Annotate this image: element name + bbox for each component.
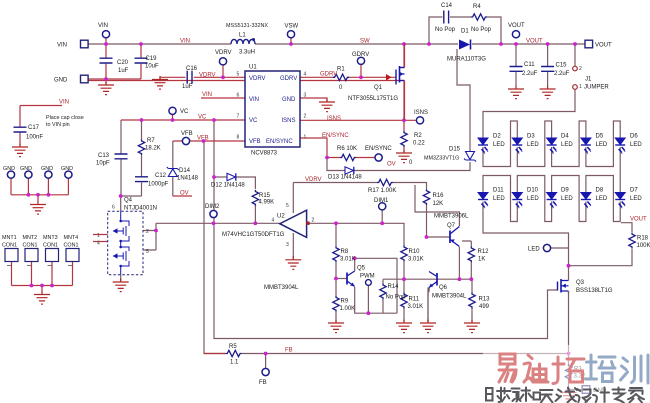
resistor R17 xyxy=(368,179,396,194)
node U2 in at R8 xyxy=(334,221,338,225)
wire D6 to D7 xyxy=(619,147,621,193)
capacitor C12 xyxy=(135,173,169,188)
node VC at testpoint xyxy=(171,118,175,122)
node comp network bottom xyxy=(119,194,123,198)
testpoint GND4 xyxy=(61,166,73,178)
capacitor C11 xyxy=(510,62,538,77)
svg-text:1: 1 xyxy=(97,233,100,239)
svg-text:CON1: CON1 xyxy=(64,243,79,249)
svg-text:C16: C16 xyxy=(186,66,198,72)
svg-text:R9: R9 xyxy=(341,299,349,305)
node GND tp bus a xyxy=(27,193,31,197)
diode D13 1N4148 xyxy=(328,167,362,181)
resistor R5 xyxy=(226,344,242,366)
svg-text:4: 4 xyxy=(97,241,100,247)
resistor R2 xyxy=(401,131,426,147)
wire D14 column xyxy=(172,141,174,196)
LED D4 xyxy=(547,134,574,154)
svg-text:1: 1 xyxy=(304,135,307,141)
svg-text:ISNS: ISNS xyxy=(282,118,296,124)
svg-text:GND: GND xyxy=(20,166,32,172)
ground U1 pin3 xyxy=(319,99,335,112)
svg-text:3: 3 xyxy=(304,93,307,99)
wire GND testpoint bus xyxy=(11,178,68,201)
svg-text:SW: SW xyxy=(360,39,370,45)
svg-text:VIN: VIN xyxy=(202,92,212,98)
svg-text:D12 1N4148: D12 1N4148 xyxy=(211,183,245,189)
node GND tp bus gnd xyxy=(36,193,40,197)
port GND bottom-right xyxy=(582,386,607,394)
wire R14 xyxy=(382,279,384,313)
wire top rail VIN/SW xyxy=(88,43,585,45)
svg-text:VC: VC xyxy=(249,118,258,124)
svg-text:Q6: Q6 xyxy=(439,285,448,291)
wire R3 to GND port xyxy=(569,389,583,391)
mount hole MNT4 CON1 xyxy=(64,235,80,266)
svg-text:L1: L1 xyxy=(239,33,246,39)
testpoint LED xyxy=(528,244,551,252)
svg-text:Place cap close: Place cap close xyxy=(46,115,84,121)
svg-text:DIM1: DIM1 xyxy=(374,198,389,204)
svg-text:1uF: 1uF xyxy=(118,68,129,74)
inductor L1 xyxy=(231,38,255,44)
node VOUT at C15 xyxy=(546,42,550,46)
svg-text:C14: C14 xyxy=(441,3,453,9)
wire MNT bus xyxy=(12,262,73,292)
diode D1 MURA110T3G xyxy=(447,29,486,63)
wire U2 in row xyxy=(308,223,404,245)
svg-text:VDRV: VDRV xyxy=(249,76,266,82)
ground below R9 xyxy=(328,320,344,333)
node VC at R7 xyxy=(140,118,144,122)
ground GND testpoints xyxy=(30,201,46,214)
svg-text:R13: R13 xyxy=(479,297,491,303)
resistor R11 xyxy=(401,293,423,311)
svg-text:2: 2 xyxy=(304,114,307,120)
WIRES-MAIN xyxy=(88,17,632,392)
svg-text:NTJD4001N: NTJD4001N xyxy=(124,206,157,212)
node VOUT at C11 xyxy=(514,42,518,46)
svg-text:LED: LED xyxy=(596,196,608,202)
wire OV stub D14 xyxy=(173,195,192,197)
svg-text:LED: LED xyxy=(493,142,505,148)
wire R11 xyxy=(403,279,405,322)
transistor Q5 MMBT3904L xyxy=(264,266,366,292)
transistor Q6 MMBT3904L xyxy=(428,272,467,323)
svg-text:VC: VC xyxy=(198,114,207,120)
testpoint FB xyxy=(259,368,269,386)
svg-text:6: 6 xyxy=(237,93,240,99)
svg-text:GDRV: GDRV xyxy=(320,72,337,78)
svg-text:100nF: 100nF xyxy=(26,135,43,141)
LED D5 xyxy=(581,134,608,154)
svg-text:M74VHC1GT50DFT1G: M74VHC1GT50DFT1G xyxy=(222,232,285,238)
resistor R3 xyxy=(565,364,586,380)
capacitor C14 xyxy=(435,3,456,33)
node SW at VSW xyxy=(289,42,293,46)
ground MNT xyxy=(34,291,50,304)
wire R18 branch xyxy=(569,223,633,266)
LED D9 xyxy=(547,188,574,209)
resistor R16 xyxy=(423,189,444,207)
testpoint VC xyxy=(169,107,189,115)
svg-text:0.22: 0.22 xyxy=(413,141,425,147)
svg-text:GND: GND xyxy=(3,166,15,172)
wire Q5 collector xyxy=(355,258,397,313)
svg-text:VC: VC xyxy=(180,109,189,115)
svg-text:LED: LED xyxy=(561,196,573,202)
wire LED string return to Q3 xyxy=(483,202,569,278)
svg-text:MNT4: MNT4 xyxy=(64,235,79,241)
wire ISNS row xyxy=(300,120,416,152)
wire FB row xyxy=(204,141,569,354)
transistor Q3 BSS138LT1G xyxy=(558,277,613,294)
wire J1 to LED bus xyxy=(483,44,575,138)
node Q4 drains xyxy=(154,229,158,233)
svg-text:7: 7 xyxy=(237,114,240,120)
svg-text:Q7: Q7 xyxy=(447,223,456,229)
node Q6 base at R10/R11 xyxy=(402,277,406,281)
svg-text:3: 3 xyxy=(286,242,289,248)
svg-text:C13: C13 xyxy=(98,153,110,159)
port VOUT xyxy=(585,40,612,48)
wire Q7 collector xyxy=(458,247,460,279)
svg-text:Q5: Q5 xyxy=(357,266,366,272)
node GND tp bus b xyxy=(47,193,51,197)
testpoint ENSYNC xyxy=(365,146,392,161)
svg-text:MMBT3906L: MMBT3906L xyxy=(434,214,469,220)
node GDRV at testpoint xyxy=(359,75,363,79)
transistor Q4 NTJD4001N dual mosfet xyxy=(97,198,157,275)
node SW at C14 branch xyxy=(427,42,431,46)
svg-text:LED: LED xyxy=(528,247,540,253)
capacitor C15 xyxy=(541,63,570,78)
svg-text:499: 499 xyxy=(479,304,490,310)
wire LED serpentine bottom row xyxy=(586,176,620,222)
svg-text:R18: R18 xyxy=(637,236,649,242)
mount hole MNT3 CON1 xyxy=(43,235,59,266)
wire VC row xyxy=(121,115,245,121)
wire U2 out row xyxy=(143,223,280,250)
svg-text:VDRV: VDRV xyxy=(199,72,216,78)
svg-text:C19: C19 xyxy=(146,56,158,62)
diode D12 1N4148 xyxy=(211,173,245,188)
node ISNS at R2 xyxy=(402,118,406,122)
testpoint PWM xyxy=(360,274,375,286)
ground below R2 xyxy=(396,150,413,167)
svg-text:D13 1N4148: D13 1N4148 xyxy=(328,175,362,181)
svg-text:MNT3: MNT3 xyxy=(43,235,58,241)
svg-text:CON1: CON1 xyxy=(23,243,38,249)
resistor R1 xyxy=(333,67,349,92)
ground below C17 xyxy=(12,144,28,157)
svg-text:D3: D3 xyxy=(527,134,535,140)
svg-text:D6: D6 xyxy=(630,134,638,140)
wire PWM stub xyxy=(367,286,369,314)
svg-text:LED: LED xyxy=(596,142,608,148)
wire R8 R9 column xyxy=(335,223,337,322)
wire VIN stub pin6 xyxy=(201,97,245,99)
svg-text:CON1: CON1 xyxy=(43,243,58,249)
svg-text:R2: R2 xyxy=(414,133,422,139)
svg-text:VIN: VIN xyxy=(180,39,190,45)
svg-text:VOUT: VOUT xyxy=(508,23,525,29)
resistor R10 xyxy=(401,245,424,262)
node FB at R3 top xyxy=(567,352,571,356)
mount hole MNT1 CON1 xyxy=(2,235,18,266)
svg-text:VIN: VIN xyxy=(98,23,108,29)
svg-text:D9: D9 xyxy=(561,188,569,194)
svg-text:VIN: VIN xyxy=(249,97,259,103)
svg-text:D5: D5 xyxy=(596,134,604,140)
ground below C15 xyxy=(540,86,556,99)
svg-text:R5: R5 xyxy=(229,344,237,350)
node VC at DIM2 branch xyxy=(212,118,216,122)
testpoint DIM1 xyxy=(374,198,389,210)
wire R7 C12 branch xyxy=(141,120,143,196)
svg-text:1.1: 1.1 xyxy=(230,360,239,366)
svg-text:ISNS: ISNS xyxy=(414,110,428,116)
svg-text:D10: D10 xyxy=(527,188,539,194)
svg-text:JUMPER: JUMPER xyxy=(584,85,609,91)
capacitor C19 xyxy=(135,56,160,70)
svg-text:R1: R1 xyxy=(337,67,345,73)
svg-text:U2: U2 xyxy=(277,214,285,220)
svg-text:LED: LED xyxy=(630,142,642,148)
testpoint VIN xyxy=(98,23,110,38)
LED D6 xyxy=(615,134,642,154)
port GND xyxy=(54,75,88,83)
wire DIM2 vertical xyxy=(214,120,558,339)
testpoint VDRV xyxy=(215,50,232,65)
svg-text:D7: D7 xyxy=(630,188,638,194)
op-amp U2 M74VHC1GT50DFT1G buffer xyxy=(222,203,315,248)
resistor R12 xyxy=(468,246,489,262)
svg-text:FB: FB xyxy=(285,348,293,354)
node SW at Q1 drain xyxy=(402,42,406,46)
ground below Q4 xyxy=(113,279,129,292)
svg-text:EN/SYNC: EN/SYNC xyxy=(322,133,349,139)
jumper J1 xyxy=(573,66,610,91)
svg-text:LED: LED xyxy=(493,196,505,202)
svg-text:MSS5131-332NX: MSS5131-332NX xyxy=(226,23,268,29)
transistor Q1 NTF3055L175T1G xyxy=(348,44,405,120)
svg-text:1K: 1K xyxy=(478,257,485,263)
svg-text:MMBT3904L: MMBT3904L xyxy=(264,285,299,291)
wire Q3 source to R3 xyxy=(568,291,570,392)
testpoint GND2 xyxy=(20,166,32,178)
svg-text:MURA110T3G: MURA110T3G xyxy=(447,57,486,63)
svg-text:GDRV: GDRV xyxy=(280,76,297,82)
svg-text:VDRV: VDRV xyxy=(215,50,232,56)
svg-text:R10: R10 xyxy=(409,249,421,255)
wire ENSYNC row xyxy=(300,138,375,158)
svg-text:LED: LED xyxy=(630,196,642,202)
resistor R15 xyxy=(252,190,274,206)
svg-text:MMBT3904L: MMBT3904L xyxy=(432,294,467,300)
node VOUT at J1 xyxy=(573,42,577,46)
wire R10 xyxy=(403,261,405,279)
node D12 anode xyxy=(212,175,216,179)
svg-text:8: 8 xyxy=(237,135,240,141)
ground U2 pin3 xyxy=(285,256,301,269)
capacitor C20 xyxy=(100,58,129,74)
LED D11 xyxy=(478,188,505,209)
capacitor C17 xyxy=(14,125,44,141)
wire Q6 emitter xyxy=(427,288,429,323)
watermark yiditop logo xyxy=(483,345,650,403)
svg-text:C11: C11 xyxy=(524,62,535,68)
wire R13 xyxy=(471,279,473,322)
svg-text:VOUT: VOUT xyxy=(526,39,543,45)
LED D7 xyxy=(615,188,642,209)
svg-text:5: 5 xyxy=(237,72,240,78)
wire VIN port rail xyxy=(88,38,141,84)
svg-text:3.01K: 3.01K xyxy=(408,304,424,310)
wire VSW stub xyxy=(290,38,292,44)
svg-text:ISNS: ISNS xyxy=(327,116,341,122)
svg-text:MM3Z33VT1G: MM3Z33VT1G xyxy=(424,156,459,162)
svg-text:VFB: VFB xyxy=(249,139,261,145)
wire LED serpentine top row xyxy=(483,121,517,167)
svg-text:Q3: Q3 xyxy=(576,280,585,286)
node VIN at C19 xyxy=(139,42,143,46)
resistor R13 xyxy=(469,293,490,311)
svg-text:6: 6 xyxy=(112,205,115,211)
svg-text:Q4: Q4 xyxy=(124,198,133,204)
svg-text:GDRV: GDRV xyxy=(352,52,369,58)
node FB at testpoint xyxy=(264,352,268,356)
svg-text:U1: U1 xyxy=(249,65,257,71)
capacitor C13 xyxy=(96,153,128,167)
svg-text:R16: R16 xyxy=(433,193,445,199)
node Q7 collector xyxy=(458,277,462,281)
node U2 out at R15 xyxy=(254,221,258,225)
svg-text:12K: 12K xyxy=(433,201,444,207)
svg-text:D1: D1 xyxy=(461,29,469,35)
svg-text:1uF: 1uF xyxy=(182,84,193,90)
LED D10 xyxy=(512,188,539,209)
node U2 out at DIM2 xyxy=(212,221,216,225)
transistor Q7 MMBT3906L xyxy=(434,214,469,247)
wire Q5 emitter row xyxy=(355,287,397,313)
node MNT bus gnd xyxy=(40,284,44,288)
port VIN xyxy=(57,40,88,48)
svg-text:1N4148: 1N4148 xyxy=(177,176,199,182)
svg-text:VIN: VIN xyxy=(57,43,67,49)
svg-text:3.3uH: 3.3uH xyxy=(239,50,255,56)
testpoint VOUT xyxy=(508,23,525,38)
svg-text:R15: R15 xyxy=(259,193,271,199)
ground below Q6 xyxy=(420,320,436,333)
node U2 in at DIM1 xyxy=(380,221,384,225)
wire Q4 gnd stub xyxy=(120,275,122,281)
diode D14 1N4148 xyxy=(167,167,199,182)
svg-text:4: 4 xyxy=(304,72,307,78)
ground below R11 xyxy=(396,320,412,333)
wire FB testpoint stub xyxy=(265,354,267,369)
svg-text:VSW: VSW xyxy=(285,24,299,30)
svg-text:5: 5 xyxy=(146,249,149,255)
testpoint GDRV xyxy=(352,52,369,64)
svg-text:R6 10K: R6 10K xyxy=(337,146,357,152)
svg-text:3.01K: 3.01K xyxy=(408,257,424,263)
resistor R7 xyxy=(138,138,160,155)
ground below R13 xyxy=(464,320,480,333)
testpoint ISNS xyxy=(414,110,428,124)
svg-text:NTF3055L175T1G: NTF3055L175T1G xyxy=(348,96,398,102)
resistor R18 xyxy=(629,233,650,250)
svg-text:C17: C17 xyxy=(28,125,40,131)
svg-text:D2: D2 xyxy=(493,134,501,140)
svg-text:10pF: 10pF xyxy=(96,161,110,167)
node VDRV at testpoint xyxy=(221,75,225,79)
WIRES-RED xyxy=(11,38,416,354)
resistor R6 xyxy=(337,146,357,161)
svg-text:VFB: VFB xyxy=(197,135,209,141)
wire VIN top label stub xyxy=(20,106,62,147)
svg-text:PWM: PWM xyxy=(360,274,375,280)
svg-text:MNT1: MNT1 xyxy=(2,235,17,241)
svg-text:LED: LED xyxy=(527,196,539,202)
node ENSYNC at R6 xyxy=(325,156,329,160)
wire Q1 drain/source xyxy=(81,44,405,120)
svg-text:4.99K: 4.99K xyxy=(259,200,275,206)
resistor R9 xyxy=(333,296,355,312)
wire OV row xyxy=(327,158,470,171)
svg-text:LED: LED xyxy=(527,142,539,148)
svg-text:2: 2 xyxy=(579,66,582,72)
ground below C19/C16 xyxy=(152,76,168,89)
wire Q4 gate pins xyxy=(93,235,108,242)
svg-text:1: 1 xyxy=(579,84,582,90)
testpoint DIM2 xyxy=(205,204,220,218)
wire R12 xyxy=(462,241,471,279)
wire VDRV row2 xyxy=(293,183,450,238)
svg-text:BSS138LT1G: BSS138LT1G xyxy=(576,288,613,294)
ground below C11 xyxy=(508,86,524,99)
resistor R4 xyxy=(471,4,492,33)
svg-text:3.01K: 3.01K xyxy=(340,257,356,263)
resistor R14 xyxy=(380,283,406,300)
svg-text:MNT2: MNT2 xyxy=(23,235,38,241)
testpoint VSW xyxy=(285,24,299,38)
wire U2 power/gnd stubs xyxy=(292,183,294,259)
mount hole MNT2 CON1 xyxy=(23,235,39,266)
svg-text:LED: LED xyxy=(561,142,573,148)
svg-text:GND: GND xyxy=(282,97,296,103)
testpoint GND1 xyxy=(3,166,15,178)
svg-text:D8: D8 xyxy=(596,188,604,194)
node Q3 drain at R18 xyxy=(567,264,571,268)
op-amp U1 NCV8873 box xyxy=(237,65,307,157)
svg-text:18.2K: 18.2K xyxy=(145,146,161,152)
wire GDRV row xyxy=(300,65,396,78)
svg-text:to VIN pin: to VIN pin xyxy=(46,122,70,128)
node MNT bus b xyxy=(50,284,54,288)
svg-text:No Pop: No Pop xyxy=(386,295,407,301)
svg-text:1.00K: 1.00K xyxy=(340,306,356,312)
wire Q5 base xyxy=(336,278,347,280)
svg-text:4: 4 xyxy=(272,218,275,224)
svg-text:R12: R12 xyxy=(478,249,490,255)
svg-text:2.2uF: 2.2uF xyxy=(522,71,538,77)
svg-text:2: 2 xyxy=(312,218,315,224)
diode D15 MM3Z33VT1G xyxy=(424,147,476,162)
svg-text:10uF: 10uF xyxy=(145,64,159,70)
svg-text:100K: 100K xyxy=(637,243,650,249)
svg-text:VOUT: VOUT xyxy=(595,43,612,49)
